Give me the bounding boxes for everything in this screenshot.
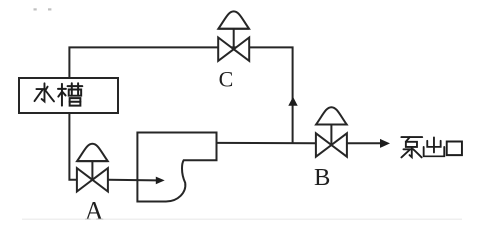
wire: tank top riser + top header pipe + right downcomer [69, 47, 292, 143]
pump P1 body [137, 133, 216, 202]
arrow: flow up on downcomer [288, 97, 297, 106]
svg-text:A: A [85, 197, 104, 226]
glyph 泵 [401, 137, 422, 157]
text 水槽 (hand-drawn glyphs) [35, 83, 83, 105]
speck artifacts top-left [34, 8, 37, 10]
wire: valve A outlet into pump suction [108, 179, 157, 182]
svg-text:B: B [314, 164, 330, 191]
valve C [218, 11, 249, 61]
glyph 出 [424, 137, 445, 156]
faint scan line bottom [22, 219, 462, 220]
tank box (水槽) [19, 78, 118, 113]
glyph 口 [447, 142, 462, 156]
text 泵出口 (hand-drawn glyphs) [401, 137, 462, 157]
valve B [316, 107, 347, 157]
glyph 水 [35, 83, 54, 101]
wire: tank bottom drop to valve A elbow [69, 113, 77, 180]
glyph 槽 [58, 83, 82, 105]
wire: pump discharge line to valve B [217, 142, 317, 144]
arrow: into pump suction [156, 177, 165, 185]
arrow: pump outlet to 泵出口 [380, 139, 390, 148]
valve A [77, 144, 108, 192]
svg-text:C: C [219, 67, 234, 92]
wire: valve B outlet line [347, 142, 381, 144]
